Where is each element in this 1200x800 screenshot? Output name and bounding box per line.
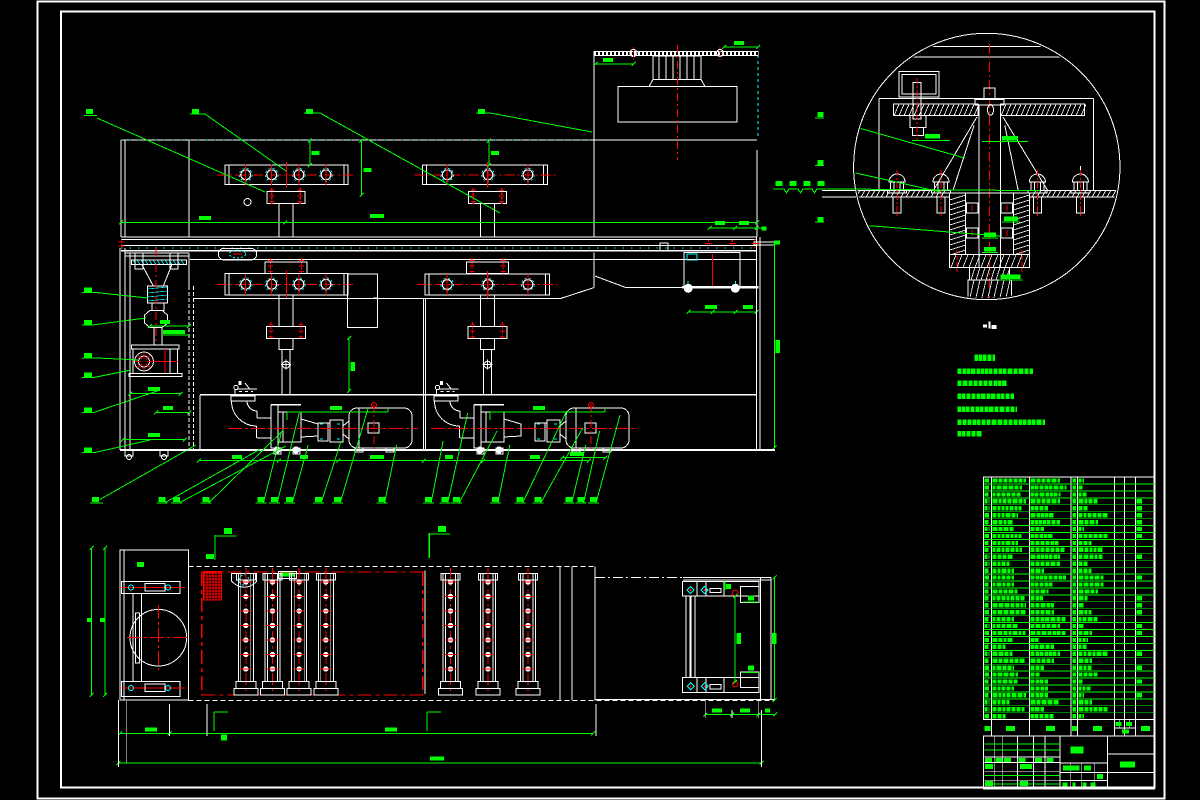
exciter striped block: [653, 56, 701, 80]
bracket row2 right group: [425, 274, 550, 295]
title block right: [1107, 736, 1109, 789]
pump bay ceiling: [200, 394, 757, 396]
discharge dim top: [710, 227, 764, 229]
detail cone outer: [953, 125, 974, 190]
pump bay dims: [199, 460, 279, 462]
coupling: [535, 423, 545, 441]
feeder shaft: [154, 328, 162, 345]
hanger plate row2 left: [265, 262, 307, 274]
detail deck: [853, 189, 950, 191]
pump inlet pipe: [257, 417, 271, 419]
plan section elbow top B: [428, 533, 430, 558]
top leader 30: [478, 109, 485, 114]
feeder top plate: [125, 252, 189, 254]
support column row2 left: [278, 295, 280, 327]
feeder top bracket: [135, 253, 143, 269]
motor eyebolt: [589, 403, 594, 408]
title block left grid: [993, 736, 995, 789]
plan dims left verticals: [91, 548, 93, 695]
detail deck bolts: [889, 174, 905, 182]
exciter housing: [593, 51, 595, 237]
plan tail section: [595, 577, 683, 579]
plan label left top: [137, 562, 144, 567]
leader 22: [84, 320, 92, 325]
top leader 28: [192, 109, 199, 114]
plan section elbow top A: [214, 535, 216, 560]
detail bottom flange: [950, 255, 1030, 268]
motor base: [129, 374, 182, 377]
notes line4: [958, 407, 961, 413]
leader 26: [84, 448, 92, 453]
motor shaft: [343, 421, 349, 439]
feeder insulated wall: [188, 286, 190, 450]
label 57 upper: [818, 112, 824, 117]
leader fan labels: [159, 497, 166, 502]
dim vertical deck 2: [361, 141, 363, 195]
discharge chute: [561, 288, 595, 299]
coupling: [318, 423, 328, 441]
plan section elbow bottom B: [426, 712, 428, 731]
exciter bolt left: [630, 50, 637, 57]
detail bottom cap: [968, 280, 1012, 302]
small circle detail left: [244, 199, 251, 206]
detail top lines: [853, 45, 1121, 47]
leader 21: [84, 287, 92, 292]
label 57 lower: [818, 217, 824, 222]
plan total dim: [118, 762, 761, 764]
motor feet: [572, 448, 580, 452]
top leader 27: [86, 109, 93, 114]
plan red boundary: [202, 571, 424, 573]
pump cone: [301, 419, 318, 437]
drawing title text: [1071, 747, 1084, 754]
plan tail bottom bracket: [683, 678, 759, 693]
screen deck top box: [121, 139, 757, 141]
rail splice rect: [660, 243, 668, 251]
motor: [349, 408, 412, 448]
deck stringer line: [190, 258, 757, 260]
detail hatched beam left: [894, 104, 979, 116]
labels cluster left of circle: [776, 181, 783, 186]
detail shaft top bolt: [984, 88, 995, 98]
exciter body rect: [618, 87, 737, 123]
detail center shaft: [978, 105, 980, 267]
deck lines out of circle: [822, 189, 856, 191]
bracket row1 right group: [423, 165, 548, 185]
leader 23: [84, 353, 92, 358]
upper rail: [121, 244, 756, 246]
machine right wall: [756, 237, 758, 450]
dim vertical right tall: [774, 244, 776, 448]
detail lock nut: [970, 267, 1010, 280]
ground line: [120, 449, 775, 451]
feeder hatched block: [148, 286, 168, 303]
symbol below circle: [983, 325, 987, 328]
dim row inside deck: [121, 221, 757, 223]
pump body: [474, 405, 481, 448]
plan label 35: [206, 554, 214, 559]
leader 25: [84, 407, 92, 412]
pump bay divider: [423, 299, 425, 451]
detail bolt left: [913, 83, 921, 119]
motor feet: [355, 448, 363, 452]
BOM header band: [984, 719, 1155, 721]
rail bolts right: [708, 240, 710, 247]
title block left labels: [985, 758, 992, 762]
detail top-left box: [899, 72, 939, 97]
label 34 mid: [818, 160, 824, 165]
discharge box: [684, 252, 740, 287]
detail circle outline: [854, 33, 1120, 299]
notes line3: [958, 394, 961, 400]
plan deck edges: [187, 550, 189, 567]
motor crosshair: [164, 349, 166, 374]
detail leader lines: [824, 118, 965, 158]
feeder dim rows: [130, 393, 180, 395]
feeder label green: [163, 330, 185, 334]
gate box right of bracket A: [348, 274, 378, 328]
weld symbol bay1: [234, 385, 238, 389]
pump inlet pipe: [460, 417, 474, 419]
plan section elbow bottom A: [213, 712, 215, 731]
plan red hatch square: [203, 572, 221, 600]
notes line5: [958, 420, 962, 426]
plan dim row A: [120, 733, 593, 735]
motor shaft: [560, 421, 566, 439]
detail hatched beam right: [1001, 104, 1085, 116]
feeder centerline: [155, 248, 157, 345]
pump bay left wall: [199, 395, 201, 450]
detail bearings: [967, 203, 979, 213]
plan right mini dims: [705, 714, 775, 716]
notes line2: [958, 381, 962, 387]
rail detail oval: [218, 248, 256, 260]
leader 24: [84, 372, 92, 377]
detail flange bolts: [956, 250, 958, 272]
pump elbow: [231, 396, 255, 401]
plan head top bracket: [122, 582, 180, 594]
motor centerline: [373, 404, 375, 450]
hanger plate row2 right: [467, 262, 509, 274]
detail side plates: [878, 98, 880, 190]
plan divider wall: [424, 570, 426, 694]
feeder funnel: [142, 264, 172, 286]
support under row1 left: [267, 192, 305, 204]
leader 20 left wall: [92, 497, 99, 502]
vibrator motor body: [133, 349, 178, 373]
exciter bolt right: [717, 50, 724, 57]
dim vertical deck 3: [488, 141, 490, 166]
top leader 29: [306, 109, 313, 114]
pump feet: [274, 448, 281, 454]
motor: [566, 408, 629, 448]
plan inlet label: [278, 572, 296, 579]
detail bearing housing: [950, 193, 1030, 255]
discharge rollers: [684, 284, 692, 292]
discharge dim bottom: [689, 311, 757, 313]
feeder feet: [125, 450, 133, 456]
feeder wall top red bolt: [121, 240, 123, 249]
bracket row1 left group: [225, 165, 348, 185]
plan extension lines: [126, 701, 128, 763]
notes line1: [958, 368, 962, 374]
vibrator motor top plate: [132, 345, 180, 349]
exciter trapezoid: [649, 80, 705, 87]
plan head bottom bracket: [122, 682, 180, 697]
plan head circle: [130, 609, 187, 666]
pump-motor dim: [287, 411, 388, 413]
company name blob: [1120, 762, 1135, 768]
dim 65 exciter left: [596, 63, 634, 65]
motor fan grille: [135, 352, 154, 371]
dim exciter top right: [724, 46, 758, 48]
support under row1 right: [469, 192, 507, 204]
right wall top ledge: [754, 242, 774, 245]
notes line6: [958, 431, 961, 437]
gate box dim: [348, 338, 350, 391]
feeder dim 65: [150, 325, 189, 327]
support column row2 right: [480, 295, 482, 327]
label K small: [762, 227, 767, 231]
bracket row2 left group: [225, 274, 348, 296]
feeder left wall: [119, 248, 121, 450]
technical notes title: [975, 355, 978, 362]
weld symbol bay2: [435, 385, 439, 389]
BOM column lines: [991, 477, 993, 720]
pump elbow: [434, 396, 458, 401]
detail shaft cap: [975, 99, 1004, 105]
plan mid verticals: [559, 567, 561, 700]
plan head box: [120, 550, 188, 700]
plan tail right step box: [741, 587, 759, 603]
plan tail top bracket: [683, 581, 759, 596]
feeder crossbeam: [132, 260, 187, 264]
BOM row lines and text: [985, 478, 989, 482]
exciter centerline: [676, 45, 678, 160]
pump feet: [477, 448, 484, 454]
feeder hex block: [145, 310, 168, 327]
plan support columns: [236, 573, 255, 580]
detail green labels: [925, 134, 940, 139]
pump body: [271, 405, 278, 448]
plan tail green dims: [734, 596, 736, 682]
pump cone: [504, 419, 521, 437]
motor centerline: [590, 404, 592, 450]
plan head vertical bar: [133, 593, 142, 681]
pump-motor dim: [490, 411, 605, 413]
plan feed inlet: [232, 573, 257, 587]
title block frame: [984, 736, 1155, 789]
dim vertical deck 1: [309, 141, 311, 166]
plan tail bars: [686, 596, 690, 678]
motor eyebolt: [372, 403, 377, 408]
plan tail flag top: [724, 581, 726, 590]
title block middle: [1060, 762, 1108, 764]
BOM table frame: [984, 477, 1155, 720]
feeder connector: [152, 303, 164, 310]
